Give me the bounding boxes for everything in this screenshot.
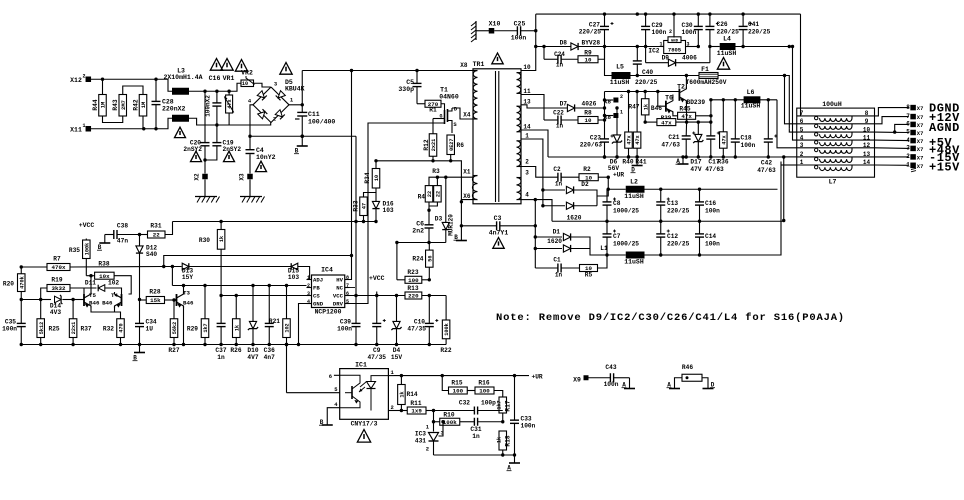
- connector X7 pin 4 +5V: [875, 139, 909, 142]
- svg-text:+UR: +UR: [613, 172, 624, 179]
- svg-text:1000/25: 1000/25: [613, 208, 639, 215]
- wire: [73, 299, 84, 301]
- resistor R45: [673, 112, 678, 116]
- inductor L2: [608, 188, 626, 190]
- wire source node: [376, 161, 461, 202]
- svg-text:13: 13: [863, 151, 871, 158]
- svg-text:FB: FB: [313, 285, 320, 292]
- svg-text:22: 22: [436, 191, 442, 197]
- svg-text:L1: L1: [600, 245, 608, 252]
- svg-text:220/25: 220/25: [717, 29, 740, 36]
- svg-text:4: 4: [906, 137, 910, 144]
- svg-text:X7: X7: [917, 138, 924, 145]
- connector X8 pin2: [605, 99, 614, 101]
- svg-text:330p: 330p: [398, 86, 414, 93]
- transistor T3 B46: [176, 294, 178, 306]
- svg-text:2X10mH1.4A: 2X10mH1.4A: [163, 74, 202, 81]
- net A stub: [669, 388, 680, 390]
- resistor R8: [578, 117, 598, 124]
- resistor R21: [285, 284, 288, 287]
- feed wire row5: [777, 100, 797, 148]
- svg-text:1: 1: [800, 159, 804, 166]
- svg-text:L5: L5: [616, 64, 624, 71]
- L7 winding 5-10: [797, 131, 875, 133]
- transformer TR1: [473, 69, 521, 204]
- svg-text:C7: C7: [613, 233, 621, 240]
- svg-text:103: 103: [383, 207, 394, 214]
- svg-text:220/25: 220/25: [667, 241, 690, 248]
- inductor L4: [710, 46, 720, 48]
- wire bottom: [434, 454, 515, 456]
- capacitor C12: [660, 221, 662, 234]
- inductor L3: [172, 88, 189, 95]
- wire pin10 column: [521, 14, 536, 70]
- connector X2 to earth: [204, 160, 206, 174]
- phototransistor: [351, 386, 353, 399]
- wire: [103, 116, 123, 123]
- wire led anode: [371, 376, 388, 381]
- wire TR pin1: [521, 139, 543, 190]
- mark under pin1 connector: [911, 168, 916, 169]
- connector X7 pin 8 DGND: [875, 108, 909, 116]
- svg-text:4n7Y1: 4n7Y1: [489, 230, 509, 237]
- connector X7 pin 3 +48V: [875, 147, 909, 150]
- wire drain to X4: [452, 108, 473, 119]
- svg-text:9: 9: [865, 118, 869, 125]
- svg-text:R21: R21: [269, 318, 280, 325]
- svg-text:X10: X10: [489, 21, 501, 28]
- svg-text:R36: R36: [717, 159, 728, 166]
- svg-text:C3: C3: [494, 215, 502, 222]
- svg-text:4006: 4006: [682, 55, 697, 62]
- resistor R32: [117, 319, 125, 338]
- svg-text:56: 56: [427, 255, 433, 261]
- wire HV feed: [350, 71, 352, 280]
- svg-text:C41: C41: [748, 21, 759, 28]
- L7 winding 3-12: [797, 147, 875, 149]
- resistor R35: [85, 239, 87, 241]
- svg-text:100uH: 100uH: [822, 101, 842, 108]
- wire T3 emitter: [183, 306, 185, 345]
- capacitor C31: [473, 418, 475, 426]
- capacitor C41: [742, 14, 744, 26]
- svg-text:D3: D3: [435, 216, 443, 223]
- connector X8 pin1: [605, 115, 614, 117]
- warning triangle: [221, 59, 233, 71]
- svg-text:100k: 100k: [84, 243, 90, 255]
- svg-text:1000/25: 1000/25: [613, 241, 639, 248]
- svg-text:C5: C5: [406, 79, 414, 86]
- svg-text:BYV28: BYV28: [582, 40, 601, 47]
- svg-text:2n2: 2n2: [412, 228, 424, 235]
- svg-text:10: 10: [585, 56, 592, 63]
- resistor R12: [433, 118, 445, 120]
- net B stub: [456, 240, 467, 242]
- svg-text:X8: X8: [460, 62, 468, 69]
- capacitor C27: [604, 14, 606, 26]
- capacitor C38: [105, 234, 114, 236]
- resistor R41: [636, 92, 638, 133]
- ground: [195, 196, 217, 198]
- aux resistor R33: [364, 188, 377, 197]
- svg-text:C9: C9: [373, 347, 381, 354]
- L6 feed line: [711, 99, 777, 101]
- fuse F1: [631, 75, 700, 77]
- svg-text:102: 102: [108, 280, 119, 287]
- svg-text:4: 4: [525, 192, 529, 199]
- svg-text:GND: GND: [313, 301, 324, 308]
- svg-text:1x9: 1x9: [411, 408, 422, 415]
- net B stub: [104, 235, 106, 244]
- feed wire row4: [793, 47, 797, 141]
- diode D3 MUR120: [444, 176, 447, 179]
- svg-text:R9: R9: [584, 50, 592, 57]
- inductor L5: [612, 72, 631, 79]
- svg-text:C12: C12: [667, 233, 678, 240]
- svg-text:2: 2: [525, 159, 529, 166]
- svg-text:3k32: 3k32: [52, 285, 66, 292]
- svg-text:ADJ: ADJ: [313, 277, 323, 284]
- svg-text:T3: T3: [183, 290, 190, 297]
- svg-text:C42: C42: [761, 160, 772, 167]
- svg-text:C8: C8: [613, 200, 621, 207]
- svg-text:R1: R1: [429, 107, 437, 114]
- svg-text:R14: R14: [407, 391, 418, 398]
- resistor R9: [578, 56, 598, 63]
- capacitor C43: [589, 377, 611, 379]
- wire T6 collector: [672, 95, 674, 99]
- svg-text:L7: L7: [829, 179, 837, 186]
- svg-text:100p: 100p: [481, 400, 496, 407]
- svg-text:R5: R5: [585, 272, 593, 279]
- wire: [718, 76, 789, 129]
- resistor R36: [722, 100, 724, 132]
- feed wire row1: [800, 14, 802, 116]
- wire sense node: [429, 177, 472, 185]
- svg-text:2: 2: [273, 116, 276, 123]
- L7 winding 6-9: [797, 123, 875, 125]
- capacitor C36: [268, 284, 271, 287]
- led: [367, 382, 376, 389]
- svg-text:R18: R18: [505, 435, 512, 446]
- svg-text:T4: T4: [111, 292, 118, 299]
- capacitor C21: [685, 122, 687, 136]
- resistor R30: [219, 220, 222, 223]
- resistor R46: [682, 374, 702, 381]
- capacitor C16: [215, 90, 218, 93]
- connector X7 pin 5: [875, 131, 909, 133]
- svg-text:NCP1200: NCP1200: [315, 309, 342, 316]
- capacitor C10: [428, 296, 430, 324]
- svg-text:C14: C14: [705, 233, 716, 240]
- capacitor C30: [697, 14, 699, 26]
- svg-text:100n: 100n: [511, 35, 527, 42]
- svg-text:X8: X8: [604, 114, 611, 121]
- svg-text:C6: C6: [416, 221, 424, 228]
- svg-text:R23: R23: [407, 269, 418, 276]
- svg-text:R10: R10: [443, 412, 454, 419]
- svg-text:5: 5: [346, 299, 349, 305]
- capacitor C25: [494, 30, 517, 32]
- svg-text:220/25: 220/25: [748, 29, 771, 36]
- svg-text:C26: C26: [717, 21, 728, 28]
- capacitor C16b: [699, 189, 701, 202]
- svg-text:47/63: 47/63: [757, 167, 776, 174]
- resistor R42: [139, 95, 147, 117]
- svg-text:15k: 15k: [150, 297, 161, 304]
- HV rail wire: [302, 70, 473, 72]
- zener D4: [396, 296, 398, 322]
- svg-text:2: 2: [620, 94, 623, 100]
- svg-text:R15: R15: [451, 380, 462, 387]
- svg-text:100n: 100n: [741, 142, 756, 149]
- svg-text:X7: X7: [917, 154, 924, 161]
- svg-text:47/63: 47/63: [705, 166, 724, 173]
- svg-text:HV: HV: [336, 277, 343, 284]
- svg-text:15Y: 15Y: [182, 274, 193, 281]
- wire: [142, 116, 144, 129]
- +UR wire: [394, 375, 529, 377]
- svg-text:1n: 1n: [555, 272, 563, 279]
- transistor T6 B46: [665, 101, 667, 112]
- svg-text:1M: 1M: [140, 101, 147, 108]
- feed wire row7: [781, 164, 797, 166]
- svg-text:T2: T2: [677, 84, 685, 91]
- svg-text:+UR: +UR: [532, 374, 543, 381]
- regulator IC2 7805: [664, 41, 686, 54]
- wire T2 collector: [685, 76, 687, 89]
- svg-text:11uSH: 11uSH: [741, 103, 761, 110]
- resistor R2: [579, 174, 598, 181]
- svg-text:D4: D4: [393, 347, 401, 354]
- warning triangle: [717, 58, 729, 70]
- svg-text:C33: C33: [521, 416, 532, 423]
- svg-text:C2: C2: [553, 166, 561, 173]
- capacitor C34: [138, 298, 141, 301]
- svg-text:6: 6: [906, 121, 910, 128]
- rail +12V raw: [536, 13, 801, 15]
- svg-text:3: 3: [800, 142, 804, 149]
- svg-text:2x21: 2x21: [431, 139, 437, 151]
- wire: [171, 267, 173, 286]
- varistor VR2: [241, 80, 254, 87]
- svg-text:X11: X11: [70, 127, 82, 134]
- vcc aux wire: [173, 221, 377, 223]
- wire to B gnd: [460, 202, 462, 226]
- svg-text:R46: R46: [682, 364, 693, 371]
- diode D15 103: [291, 263, 298, 270]
- svg-text:D17: D17: [690, 159, 701, 166]
- svg-text:X1: X1: [463, 169, 471, 176]
- svg-text:C34: C34: [146, 319, 157, 326]
- svg-text:100n: 100n: [652, 29, 667, 36]
- capacitor C5: [415, 69, 418, 72]
- svg-text:4n7: 4n7: [264, 354, 275, 361]
- resistor R20: [20, 267, 22, 274]
- warning triangle: [493, 238, 504, 249]
- wire X6: [461, 200, 473, 202]
- svg-text:B46: B46: [183, 300, 194, 307]
- svg-text:T600mAH250V: T600mAH250V: [686, 79, 727, 86]
- svg-text:47V: 47V: [690, 166, 701, 173]
- svg-text:R45: R45: [679, 106, 690, 113]
- svg-text:04N60: 04N60: [439, 94, 459, 101]
- svg-text:1n: 1n: [556, 123, 564, 130]
- wire: [123, 86, 143, 95]
- capacitor C19: [216, 125, 218, 143]
- diode D8 BYV28: [534, 45, 537, 48]
- wire: [254, 83, 271, 87]
- svg-text:1k: 1k: [219, 236, 225, 242]
- capacitor C20: [203, 90, 206, 93]
- svg-text:2: 2: [800, 151, 804, 158]
- svg-text:C35: C35: [5, 319, 16, 326]
- resistor R31: [138, 233, 141, 236]
- capacitor C14: [699, 221, 701, 234]
- resistor R14: [400, 376, 402, 385]
- diode D13 15Y: [182, 263, 189, 270]
- svg-text:X7: X7: [917, 122, 924, 129]
- svg-text:7805: 7805: [668, 47, 682, 54]
- svg-text:100: 100: [408, 277, 419, 284]
- warning triangle: [492, 53, 503, 64]
- resistor R38: [90, 276, 92, 294]
- svg-text:2: 2: [669, 29, 672, 35]
- wire VCC feed: [350, 295, 447, 297]
- resistor R44: [101, 78, 104, 81]
- resistor R26: [235, 296, 237, 319]
- zener D16: [375, 193, 377, 202]
- svg-text:R27: R27: [168, 347, 179, 354]
- svg-text:TR1: TR1: [473, 61, 485, 68]
- connector X11: [86, 126, 92, 132]
- svg-text:4: 4: [307, 299, 310, 305]
- svg-text:D1: D1: [553, 229, 561, 236]
- svg-text:R28: R28: [149, 289, 160, 296]
- svg-text:VR1: VR1: [223, 75, 235, 82]
- capacitor C3: [461, 225, 496, 227]
- svg-text:2nSY2: 2nSY2: [223, 146, 242, 153]
- primary winding X1-X6: [472, 176, 477, 200]
- svg-text:C11: C11: [308, 111, 320, 118]
- resistor R3b: [436, 176, 439, 179]
- svg-text:14: 14: [863, 159, 871, 166]
- capacitor C13: [660, 189, 662, 202]
- connector X3 to earth: [247, 174, 253, 180]
- net D stub: [636, 157, 638, 166]
- svg-text:2M7: 2M7: [120, 100, 127, 110]
- svg-text:T6: T6: [665, 95, 673, 102]
- wire T6 base: [658, 92, 666, 107]
- svg-text:8: 8: [865, 110, 869, 117]
- svg-text:C13: C13: [667, 200, 678, 207]
- svg-text:10: 10: [374, 175, 380, 181]
- svg-text:1k7: 1k7: [497, 400, 503, 409]
- svg-text:100n: 100n: [705, 208, 720, 215]
- feed wire row3: [789, 129, 796, 132]
- svg-text:10x: 10x: [99, 273, 110, 280]
- aux resistor R34: [374, 159, 377, 162]
- svg-text:2: 2: [426, 446, 429, 453]
- wire gnd drop: [783, 157, 785, 221]
- svg-text:3: 3: [307, 291, 310, 297]
- svg-text:R2: R2: [583, 166, 591, 173]
- wire emitters: [91, 306, 121, 319]
- resistor R22: [445, 296, 447, 321]
- svg-text:IC1: IC1: [355, 362, 367, 369]
- svg-text:IC4: IC4: [321, 267, 333, 274]
- svg-text:47x: 47x: [635, 135, 641, 144]
- connector X7 pin 2 -15V: [875, 156, 909, 158]
- svg-text:D8: D8: [560, 40, 568, 47]
- svg-text:10: 10: [242, 81, 248, 87]
- inductor L1: [607, 254, 626, 256]
- svg-text:220: 220: [408, 293, 419, 300]
- svg-text:100: 100: [479, 388, 490, 395]
- svg-text:+VCC: +VCC: [369, 275, 385, 282]
- svg-text:1620: 1620: [567, 215, 582, 222]
- svg-text:AGND: AGND: [929, 121, 960, 135]
- feed wire row2: [785, 76, 797, 124]
- warning triangle: [210, 59, 222, 71]
- svg-text:3: 3: [906, 145, 910, 152]
- svg-text:4V3: 4V3: [50, 309, 61, 316]
- svg-text:R32: R32: [103, 326, 114, 333]
- wire X1: [472, 176, 473, 178]
- wire T2 emitter: [685, 102, 687, 123]
- svg-text:C31: C31: [470, 426, 481, 433]
- net A stub: [514, 455, 516, 463]
- svg-text:C39: C39: [340, 319, 351, 326]
- svg-text:R25: R25: [49, 326, 60, 333]
- wire GND pin: [299, 304, 307, 345]
- svg-text:11uSH: 11uSH: [624, 259, 644, 266]
- svg-text:CS: CS: [313, 293, 320, 300]
- svg-text:R20: R20: [3, 281, 14, 288]
- resistor R24: [428, 243, 430, 251]
- capacitor C35: [20, 300, 22, 324]
- svg-text:7: 7: [346, 283, 349, 289]
- svg-text:X3: X3: [239, 173, 246, 181]
- wire source: [451, 126, 453, 133]
- svg-text:22: 22: [427, 191, 433, 197]
- svg-text:220/63: 220/63: [580, 142, 603, 149]
- svg-text:GND: GND: [671, 39, 679, 43]
- inductor L6: [744, 96, 761, 103]
- svg-text:100n: 100n: [521, 423, 536, 430]
- svg-text:470: 470: [119, 323, 125, 332]
- svg-text:1M: 1M: [100, 101, 107, 108]
- shunt IC3 431: [433, 422, 435, 432]
- svg-text:C28: C28: [162, 99, 174, 106]
- wire TR pin4 return: [521, 199, 535, 201]
- svg-text:R26: R26: [230, 347, 241, 354]
- wire NC mark: [350, 287, 356, 289]
- svg-text:1k: 1k: [497, 437, 503, 443]
- svg-text:220nX2: 220nX2: [162, 106, 186, 113]
- wire T2-R45 node to L6 line: [710, 100, 712, 122]
- svg-text:1k7: 1k7: [203, 323, 209, 332]
- capacitor C9: [376, 296, 378, 324]
- svg-text:R3: R3: [432, 168, 440, 175]
- resistor R16: [467, 390, 475, 392]
- svg-text:DRV: DRV: [333, 301, 344, 308]
- svg-text:6: 6: [346, 291, 349, 297]
- svg-text:4V7: 4V7: [247, 354, 258, 361]
- svg-text:C18: C18: [741, 135, 752, 142]
- L7 winding 7-8: [797, 115, 875, 117]
- resistor R28: [146, 297, 164, 304]
